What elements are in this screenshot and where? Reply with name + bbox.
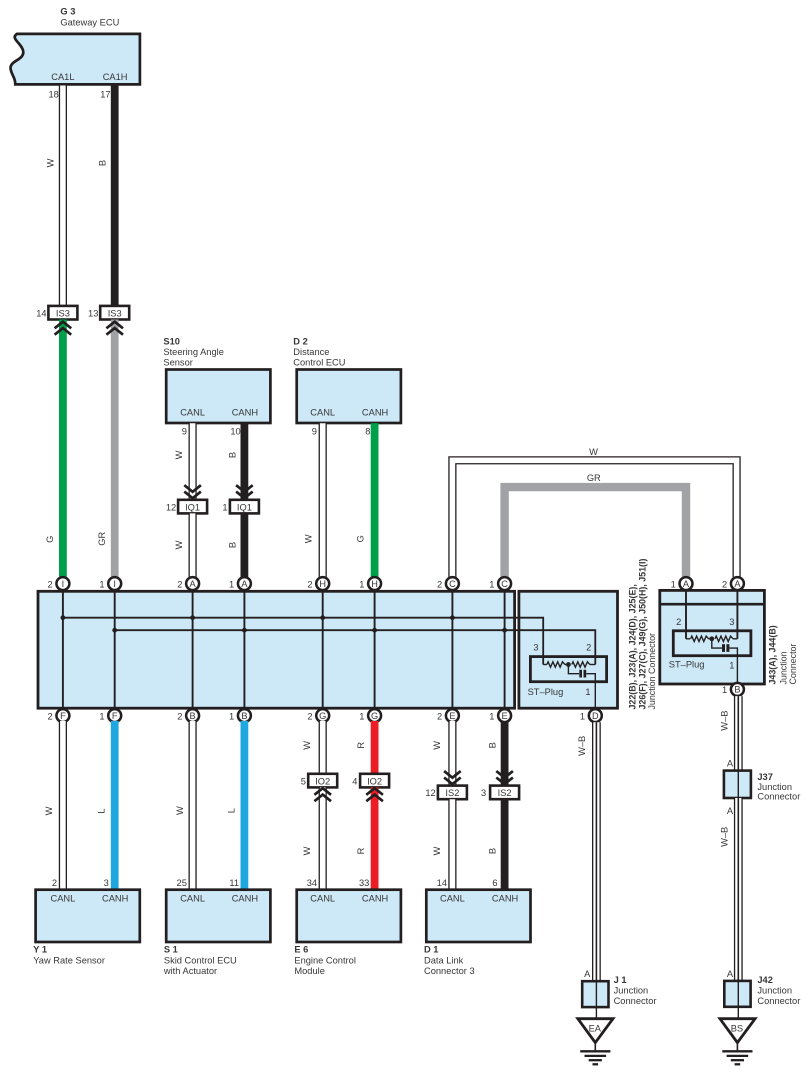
svg-text:1: 1	[359, 579, 364, 589]
svg-text:Data Link: Data Link	[424, 956, 464, 966]
svg-text:1: 1	[229, 579, 234, 589]
wire B IS2 to D1 pin 6	[488, 799, 505, 890]
svg-text:ST–Plug: ST–Plug	[528, 687, 564, 697]
capacitor C (ST-Plug J43)	[712, 639, 738, 683]
ECU D2 Distance Control ECU box	[293, 337, 401, 423]
svg-text:W: W	[45, 158, 55, 167]
wire B S10 CANH upper	[227, 423, 244, 500]
svg-text:E: E	[502, 711, 508, 721]
svg-text:W: W	[432, 741, 442, 750]
svg-text:H: H	[371, 579, 378, 589]
wire W node B2 to S1 pin 25	[175, 721, 193, 890]
node F bottom (pin 2)	[48, 709, 70, 722]
svg-text:12: 12	[166, 502, 176, 512]
svg-text:J 1: J 1	[614, 975, 627, 985]
svg-text:G: G	[355, 535, 365, 542]
svg-text:2: 2	[177, 711, 182, 721]
wire column I x=62.9	[62, 590, 64, 709]
svg-text:17: 17	[100, 90, 110, 100]
svg-text:S 1: S 1	[164, 944, 178, 954]
ST-Plug box (J43)	[669, 617, 751, 671]
ST-Plug box (main)	[528, 643, 607, 698]
wire J43 pin A1 to ST-plug pin 2	[685, 590, 687, 638]
svg-text:10: 10	[230, 427, 240, 437]
node E bottom (pin 1)	[489, 709, 511, 722]
svg-text:2: 2	[48, 579, 53, 589]
svg-text:Module: Module	[294, 966, 325, 976]
svg-text:CANL: CANL	[440, 894, 465, 904]
svg-text:9: 9	[182, 427, 187, 437]
svg-text:3: 3	[481, 788, 486, 798]
chevron joint above IQ1 left	[184, 485, 201, 498]
connector IS3 left (pin 14)	[36, 306, 77, 320]
wire W-B J37 to J42	[720, 798, 739, 981]
label A above J37	[727, 758, 734, 768]
junction connector J1 box	[582, 975, 656, 1019]
wire W node F2 to Y1 pin 2	[44, 721, 63, 890]
svg-text:A: A	[190, 579, 197, 589]
svg-text:C: C	[449, 579, 456, 589]
svg-text:Connector: Connector	[757, 996, 800, 1006]
svg-text:W: W	[589, 447, 598, 457]
wire W loop node C2 to J43 node A2	[452, 447, 736, 577]
svg-text:B: B	[241, 711, 247, 721]
svg-text:L: L	[97, 808, 107, 813]
svg-text:1: 1	[489, 579, 494, 589]
chevron joint above IQ1 right	[236, 485, 253, 498]
label J22-J51 junction connector (rotated)	[628, 559, 657, 710]
node CANL-H2 junction	[320, 615, 325, 620]
connector IQ1 left (pin 12)	[166, 500, 207, 514]
wire B node E1 to IS2	[488, 721, 505, 786]
wire R (red) node G1 to IO2	[356, 721, 375, 774]
svg-text:B: B	[488, 742, 498, 748]
wire column A x=192.6	[192, 590, 194, 709]
svg-text:CANH: CANH	[232, 407, 258, 417]
svg-text:Junction: Junction	[757, 986, 792, 996]
wire CANL bus (upper) to ST-plug pin 3	[63, 618, 543, 665]
resistor R-CANL (ST-Plug main)	[543, 662, 568, 667]
ground triangle BS	[720, 1019, 755, 1043]
svg-text:Skid Control ECU: Skid Control ECU	[164, 956, 237, 966]
svg-text:D: D	[592, 711, 599, 721]
node ST-plug center (main)	[566, 662, 571, 667]
node H top (pin 1)	[359, 577, 381, 590]
svg-text:3: 3	[533, 643, 538, 653]
svg-text:CA1H: CA1H	[103, 72, 128, 82]
svg-text:W: W	[174, 540, 184, 549]
svg-text:4: 4	[352, 776, 357, 786]
wire column A x=244.4	[243, 590, 245, 709]
node E bottom (pin 2)	[437, 709, 459, 722]
svg-text:J42: J42	[757, 975, 773, 985]
node G bottom (pin 1)	[359, 709, 381, 722]
connector IS2 right (pin 3)	[481, 786, 519, 800]
wire G (green) IS3 to node I2	[45, 320, 63, 578]
svg-text:Yaw Rate Sensor: Yaw Rate Sensor	[33, 956, 105, 966]
svg-text:F: F	[112, 711, 118, 721]
svg-text:Y 1: Y 1	[33, 944, 47, 954]
svg-text:1: 1	[229, 711, 234, 721]
svg-text:R: R	[356, 847, 366, 854]
svg-text:GR: GR	[587, 473, 601, 483]
node CANH-I1 junction	[112, 628, 117, 633]
connector IS3 right (pin 13)	[88, 306, 129, 320]
chevron joint above IS2 left	[444, 771, 461, 784]
svg-text:W: W	[175, 806, 185, 815]
svg-text:W–B: W–B	[720, 711, 730, 731]
svg-text:1: 1	[671, 579, 676, 589]
svg-text:3: 3	[104, 878, 109, 888]
svg-text:ST–Plug: ST–Plug	[669, 659, 705, 669]
svg-text:CANL: CANL	[50, 894, 75, 904]
wire column H x=322.7	[322, 590, 324, 709]
svg-text:2: 2	[586, 643, 591, 653]
svg-text:1: 1	[722, 685, 727, 695]
pin 9 (S10 CANL)	[182, 427, 187, 437]
svg-text:B: B	[190, 711, 196, 721]
svg-text:GR: GR	[97, 532, 107, 546]
svg-text:Steering Angle: Steering Angle	[163, 347, 223, 357]
wire W from G3 CA1L pin 18	[45, 86, 63, 307]
svg-text:F: F	[60, 711, 66, 721]
chevron joint below IO2 right	[366, 788, 383, 801]
svg-text:1: 1	[585, 687, 590, 697]
svg-text:Control ECU: Control ECU	[293, 358, 345, 368]
svg-text:5: 5	[301, 776, 306, 786]
wire W IS2 to D1 pin 14	[432, 799, 452, 890]
svg-text:Connector: Connector	[614, 996, 657, 1006]
junction connector main box (left section)	[38, 591, 515, 708]
node A (J43 pin 2)	[722, 577, 744, 590]
svg-text:11: 11	[229, 878, 239, 888]
svg-text:W: W	[302, 846, 312, 855]
svg-text:Junction Connector: Junction Connector	[647, 633, 657, 710]
svg-text:1: 1	[99, 579, 104, 589]
capacitor C (ST-Plug main)	[568, 665, 595, 709]
svg-text:J22(B), J23(A), J24(D), J25(E): J22(B), J23(A), J24(D), J25(E),	[628, 584, 638, 709]
svg-text:C: C	[501, 579, 508, 589]
ECU S10 Steering Angle Sensor box	[163, 337, 270, 423]
wire CANH bus (lower) to ST-plug pin 2	[115, 630, 596, 664]
svg-text:Engine Control: Engine Control	[294, 956, 356, 966]
svg-text:Junction: Junction	[614, 986, 649, 996]
svg-text:2: 2	[48, 711, 53, 721]
svg-text:Distance: Distance	[293, 347, 329, 357]
node C top (pin 1)	[489, 577, 511, 590]
svg-text:25: 25	[177, 878, 187, 888]
wire G (green) D2 CANH	[355, 423, 374, 577]
svg-text:A: A	[241, 579, 248, 589]
svg-text:I: I	[113, 579, 116, 589]
wire W IO2 to E6 pin 34	[302, 787, 323, 889]
svg-text:1: 1	[489, 711, 494, 721]
svg-text:1: 1	[99, 711, 104, 721]
chevron joint below IO2 left	[314, 788, 331, 801]
wire column I x=114.7	[114, 590, 116, 709]
ECU E6 Engine Control Module box	[294, 878, 401, 976]
svg-text:CANH: CANH	[362, 407, 388, 417]
svg-text:EA: EA	[589, 1023, 602, 1033]
svg-text:Connector: Connector	[788, 644, 798, 685]
connector IQ1 right (pin 1)	[222, 500, 258, 514]
svg-text:W: W	[304, 534, 314, 543]
svg-text:E 6: E 6	[294, 944, 308, 954]
node B (J43 pin 1 bottom)	[722, 683, 744, 696]
wire J43 pin A2 to ST-plug pin 3	[736, 590, 738, 638]
wire GR loop node C1 to J43 node A1	[505, 473, 686, 577]
svg-text:D 1: D 1	[424, 944, 438, 954]
svg-text:1: 1	[359, 711, 364, 721]
node D bottom (pin 1)	[580, 709, 602, 722]
wire R (red) IO2 to E6 pin 33	[356, 787, 375, 889]
wire W D2 CANL	[304, 423, 323, 577]
wire W S10 CANL upper	[174, 423, 193, 500]
svg-text:CANL: CANL	[310, 894, 335, 904]
wire B S10 CANH lower	[227, 513, 244, 577]
pin 17 (G3 CA1H)	[100, 90, 110, 100]
svg-text:B: B	[734, 685, 740, 695]
svg-text:CANH: CANH	[362, 894, 388, 904]
node ST-plug center (J43)	[709, 636, 714, 641]
svg-text:D 2: D 2	[293, 337, 307, 347]
wire W S10 CANL lower	[174, 513, 193, 577]
svg-text:3: 3	[729, 617, 734, 627]
resistor R-CANL (ST-Plug J43)	[715, 636, 737, 641]
node CANL-A2 junction	[190, 615, 195, 620]
svg-text:IS2: IS2	[498, 788, 512, 798]
svg-text:Connector: Connector	[757, 791, 800, 801]
junction connector J43/J44 box	[660, 590, 765, 684]
ground symbol EA	[580, 1043, 610, 1065]
svg-text:W: W	[174, 450, 184, 459]
junction connector main box (ST-plug section)	[519, 591, 618, 708]
svg-text:G: G	[45, 536, 55, 543]
label A above J42	[727, 969, 734, 979]
svg-text:1: 1	[729, 660, 734, 670]
svg-text:18: 18	[48, 90, 58, 100]
chevron joint above IS2 right	[496, 771, 513, 784]
wire column C x=452.4	[451, 590, 453, 709]
node F bottom (pin 1)	[99, 709, 121, 722]
svg-text:BS: BS	[731, 1023, 743, 1033]
svg-text:J37: J37	[757, 772, 773, 782]
svg-text:12: 12	[425, 788, 435, 798]
svg-text:B: B	[227, 452, 237, 458]
node CANH-C1 junction	[502, 628, 507, 633]
svg-text:CANL: CANL	[180, 894, 205, 904]
svg-text:IQ1: IQ1	[185, 502, 200, 512]
svg-text:A: A	[727, 758, 734, 768]
svg-text:IS3: IS3	[56, 309, 70, 319]
junction connector J37 box	[724, 771, 800, 802]
svg-text:A: A	[683, 579, 690, 589]
wire L (blue) node B1 to S1 pin 11	[227, 721, 245, 890]
svg-text:Gateway ECU: Gateway ECU	[60, 17, 119, 27]
node I top (pin 2)	[48, 577, 70, 590]
svg-text:J43(A), J44(B): J43(A), J44(B)	[767, 625, 777, 684]
label A above J1	[584, 969, 591, 979]
svg-text:2: 2	[52, 878, 57, 888]
svg-text:CA1L: CA1L	[51, 72, 74, 82]
node G bottom (pin 2)	[307, 709, 329, 722]
node C top (pin 2)	[437, 577, 459, 590]
svg-text:2: 2	[177, 579, 182, 589]
ground symbol BS	[722, 1043, 752, 1065]
svg-text:W: W	[432, 846, 442, 855]
svg-text:IO2: IO2	[367, 776, 382, 786]
svg-text:G: G	[371, 711, 378, 721]
label A below J37	[727, 806, 734, 816]
svg-text:CANL: CANL	[310, 407, 335, 417]
connector IS2 left (pin 12)	[425, 786, 467, 800]
wire W node E2 to IS2	[432, 721, 452, 786]
chevron joint below IS3 right	[106, 322, 123, 335]
svg-text:W–B: W–B	[577, 736, 587, 756]
wire W-B node B to J37	[720, 696, 739, 771]
svg-text:A: A	[727, 806, 734, 816]
svg-text:CANH: CANH	[232, 894, 258, 904]
pin 18 (G3 CA1L)	[48, 90, 58, 100]
wire GR (gray) IS3 to node I1	[97, 320, 115, 578]
svg-text:2: 2	[307, 711, 312, 721]
node A (J43 pin 1)	[671, 577, 693, 590]
svg-text:W–B: W–B	[720, 827, 730, 847]
svg-text:CANL: CANL	[180, 407, 205, 417]
svg-text:L: L	[227, 808, 237, 813]
wire B from G3 CA1H pin 17	[97, 86, 114, 307]
svg-text:IQ1: IQ1	[237, 502, 252, 512]
svg-text:6: 6	[492, 878, 497, 888]
ECU G3 Gateway ECU box	[11, 7, 140, 85]
node CANH-A1 junction	[242, 628, 247, 633]
svg-text:Sensor: Sensor	[163, 358, 192, 368]
svg-text:I: I	[62, 579, 65, 589]
junction connector J42 box	[724, 975, 800, 1019]
svg-text:B: B	[488, 848, 498, 854]
resistor R-CANH (ST-Plug main)	[572, 662, 596, 667]
svg-text:Junction: Junction	[779, 651, 789, 684]
svg-text:W: W	[44, 806, 54, 815]
node B bottom (pin 2)	[177, 709, 199, 722]
pin 9 (D2 CANL)	[312, 427, 317, 437]
svg-text:8: 8	[365, 427, 370, 437]
wire L (blue) node F1 to Y1 pin 3	[97, 721, 115, 890]
svg-text:2: 2	[676, 617, 681, 627]
svg-text:33: 33	[359, 878, 369, 888]
wire W node G2 to IO2	[302, 721, 323, 774]
chevron joint below IS3 left	[55, 322, 72, 335]
svg-text:A: A	[734, 579, 741, 589]
node H top (pin 2)	[307, 577, 329, 590]
ECU Y1 Yaw Rate Sensor box	[33, 878, 139, 966]
svg-text:CANH: CANH	[102, 894, 128, 904]
svg-text:2: 2	[437, 579, 442, 589]
node CANH-H1 junction	[372, 628, 377, 633]
resistor R-CANH (ST-Plug J43)	[686, 636, 712, 641]
svg-text:14: 14	[36, 309, 46, 319]
svg-text:G: G	[319, 711, 326, 721]
svg-text:R: R	[356, 742, 366, 749]
connector IO2 left (pin 5)	[301, 774, 337, 788]
svg-text:2: 2	[307, 579, 312, 589]
node CANL-C2 junction	[450, 615, 455, 620]
connector IO2 right (pin 4)	[352, 774, 389, 788]
node A top (pin 2)	[177, 577, 199, 590]
svg-text:W: W	[302, 741, 312, 750]
svg-text:CANH: CANH	[492, 894, 518, 904]
node A top (pin 1)	[229, 577, 251, 590]
svg-text:S10: S10	[163, 337, 180, 347]
svg-text:1: 1	[222, 502, 227, 512]
wire column C x=504.6	[504, 590, 506, 709]
svg-text:B: B	[227, 542, 237, 548]
svg-text:Connector 3: Connector 3	[424, 966, 475, 976]
svg-text:IS3: IS3	[108, 309, 122, 319]
wire column H x=374.6	[374, 590, 376, 709]
node I top (pin 1)	[99, 577, 121, 590]
svg-text:B: B	[97, 160, 107, 166]
svg-text:G 3: G 3	[60, 7, 75, 17]
svg-text:A: A	[584, 969, 591, 979]
svg-text:34: 34	[307, 878, 317, 888]
pin 8 (D2 CANH)	[365, 427, 370, 437]
pin 10 (S10 CANH)	[230, 427, 240, 437]
svg-text:IS2: IS2	[445, 788, 459, 798]
svg-text:IO2: IO2	[315, 776, 330, 786]
svg-text:1: 1	[580, 711, 585, 721]
ground triangle EA	[578, 1019, 613, 1043]
svg-text:14: 14	[437, 878, 447, 888]
svg-text:E: E	[449, 711, 455, 721]
svg-text:2: 2	[722, 579, 727, 589]
node B bottom (pin 1)	[229, 709, 251, 722]
svg-text:H: H	[319, 579, 326, 589]
label J43(A) J44(B) junction connector (rotated)	[767, 625, 798, 684]
wire W-B node D to J1	[577, 722, 596, 981]
svg-text:9: 9	[312, 427, 317, 437]
svg-text:13: 13	[88, 309, 98, 319]
svg-text:with Actuator: with Actuator	[163, 966, 217, 976]
ECU S1 Skid Control ECU box	[163, 878, 271, 976]
node CANL-I2 junction	[61, 615, 66, 620]
ECU D1 Data Link Connector 3 box	[424, 878, 531, 976]
svg-text:A: A	[727, 969, 734, 979]
svg-text:2: 2	[437, 711, 442, 721]
